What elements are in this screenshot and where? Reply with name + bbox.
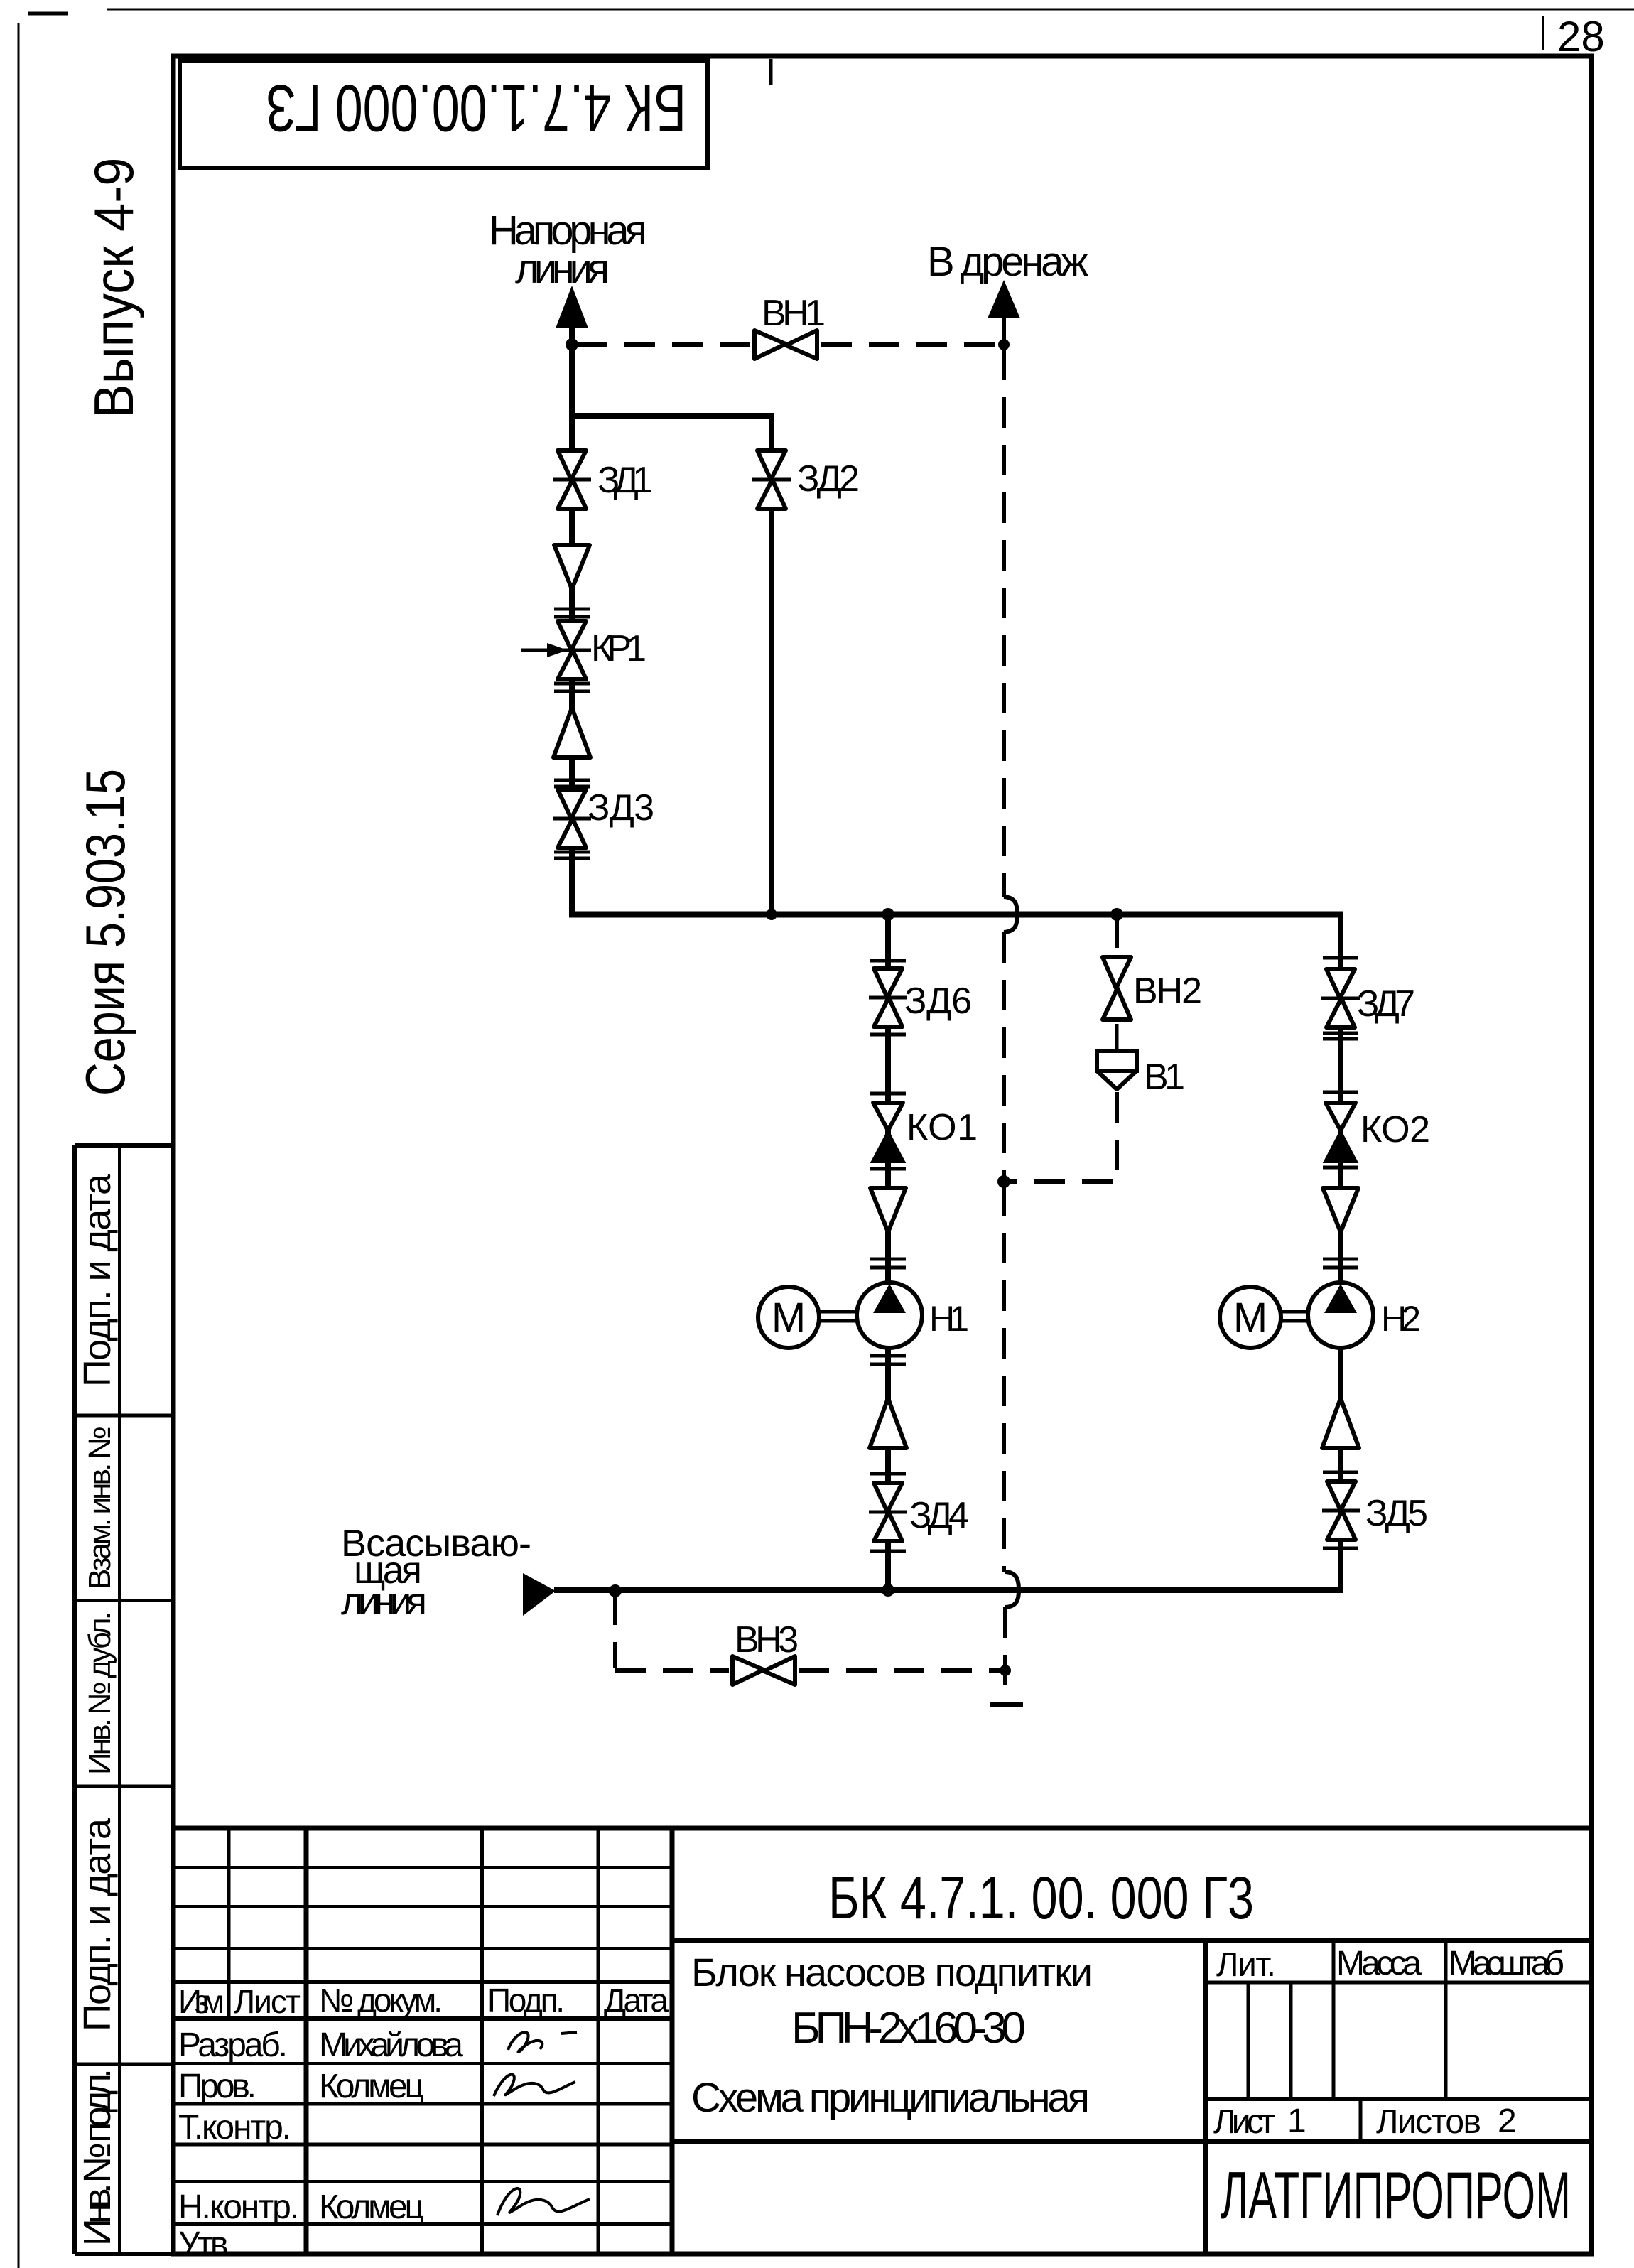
- svg-text:Лист: Лист: [1213, 2103, 1275, 2141]
- svg-text:Лит.: Лит.: [1216, 1946, 1276, 1984]
- svg-text:Пров.: Пров.: [178, 2068, 256, 2105]
- svg-text:ВН2: ВН2: [1133, 971, 1202, 1012]
- svg-text:Подп. и дата: Подп. и дата: [76, 1173, 119, 1387]
- svg-text:Взам. инв. №: Взам. инв. №: [82, 1426, 117, 1589]
- svg-text:Колмец: Колмец: [319, 2188, 424, 2226]
- svg-text:ВН1: ВН1: [762, 293, 826, 334]
- svg-text:ЗД4: ЗД4: [909, 1495, 969, 1536]
- svg-text:Лист: Лист: [234, 1983, 301, 2020]
- svg-text:Инв. № дубл.: Инв. № дубл.: [82, 1611, 117, 1775]
- svg-text:линия: линия: [515, 246, 610, 292]
- svg-text:ЗД1: ЗД1: [597, 460, 653, 501]
- svg-text:ВН3: ВН3: [735, 1619, 799, 1660]
- svg-text:БК 4.7.1. 00. 000 Г3: БК 4.7.1. 00. 000 Г3: [828, 1864, 1254, 1931]
- svg-text:Подп. и дата: Подп. и дата: [76, 1818, 119, 2031]
- svg-text:Масса: Масса: [1336, 1945, 1422, 1982]
- svg-text:БПН-2х160-30: БПН-2х160-30: [791, 2004, 1026, 2053]
- svg-text:Т.контр.: Т.контр.: [178, 2109, 291, 2146]
- svg-text:Листов: Листов: [1376, 2103, 1481, 2141]
- svg-text:В1: В1: [1144, 1057, 1185, 1098]
- svg-text:Дата: Дата: [604, 1982, 669, 2019]
- svg-text:ЗД7: ЗД7: [1357, 983, 1415, 1025]
- svg-text:Выпуск 4-9: Выпуск 4-9: [82, 158, 145, 418]
- svg-text:Серия 5.903.15: Серия 5.903.15: [74, 769, 136, 1096]
- svg-text:ЗД3: ЗД3: [588, 787, 654, 828]
- svg-text:ЗД2: ЗД2: [797, 458, 860, 499]
- svg-text:М: М: [1233, 1295, 1267, 1341]
- svg-text:Разраб.: Разраб.: [178, 2026, 288, 2064]
- svg-text:№ докум.: № докум.: [319, 1982, 443, 2019]
- svg-text:Н.контр.: Н.контр.: [178, 2188, 299, 2226]
- svg-text:Подп.: Подп.: [487, 1982, 565, 2019]
- svg-text:Масштаб: Масштаб: [1449, 1945, 1564, 1982]
- svg-text:В дренаж: В дренаж: [927, 239, 1088, 285]
- svg-text:ЗД6: ЗД6: [904, 981, 972, 1022]
- svg-text:линия: линия: [341, 1580, 427, 1623]
- svg-text:28: 28: [1557, 13, 1605, 60]
- svg-text:1: 1: [1287, 2102, 1306, 2140]
- svg-text:КО1: КО1: [907, 1107, 978, 1148]
- svg-text:Изм: Изм: [178, 1983, 224, 2020]
- svg-text:Н2: Н2: [1381, 1299, 1421, 1339]
- svg-text:Михайлова: Михайлова: [319, 2026, 463, 2064]
- svg-text:БК 4.7.1.00.000 ГЗ: БК 4.7.1.00.000 ГЗ: [266, 71, 686, 146]
- svg-text:Блок насосов подпитки: Блок насосов подпитки: [691, 1950, 1093, 1994]
- svg-text:Инв. № подл.: Инв. № подл.: [76, 2068, 119, 2246]
- svg-text:КО2: КО2: [1360, 1109, 1430, 1150]
- svg-text:2: 2: [1498, 2102, 1517, 2140]
- svg-text:КР1: КР1: [591, 628, 646, 669]
- svg-text:Колмец: Колмец: [319, 2068, 424, 2105]
- svg-text:Схема принципиальная: Схема принципиальная: [691, 2075, 1090, 2121]
- svg-text:М: М: [772, 1295, 806, 1341]
- svg-text:ЛАТГИПРОПРОМ: ЛАТГИПРОПРОМ: [1221, 2158, 1571, 2232]
- svg-text:ЗД5: ЗД5: [1365, 1493, 1428, 1534]
- svg-text:Утв.: Утв.: [178, 2225, 235, 2263]
- svg-text:Н1: Н1: [929, 1299, 969, 1339]
